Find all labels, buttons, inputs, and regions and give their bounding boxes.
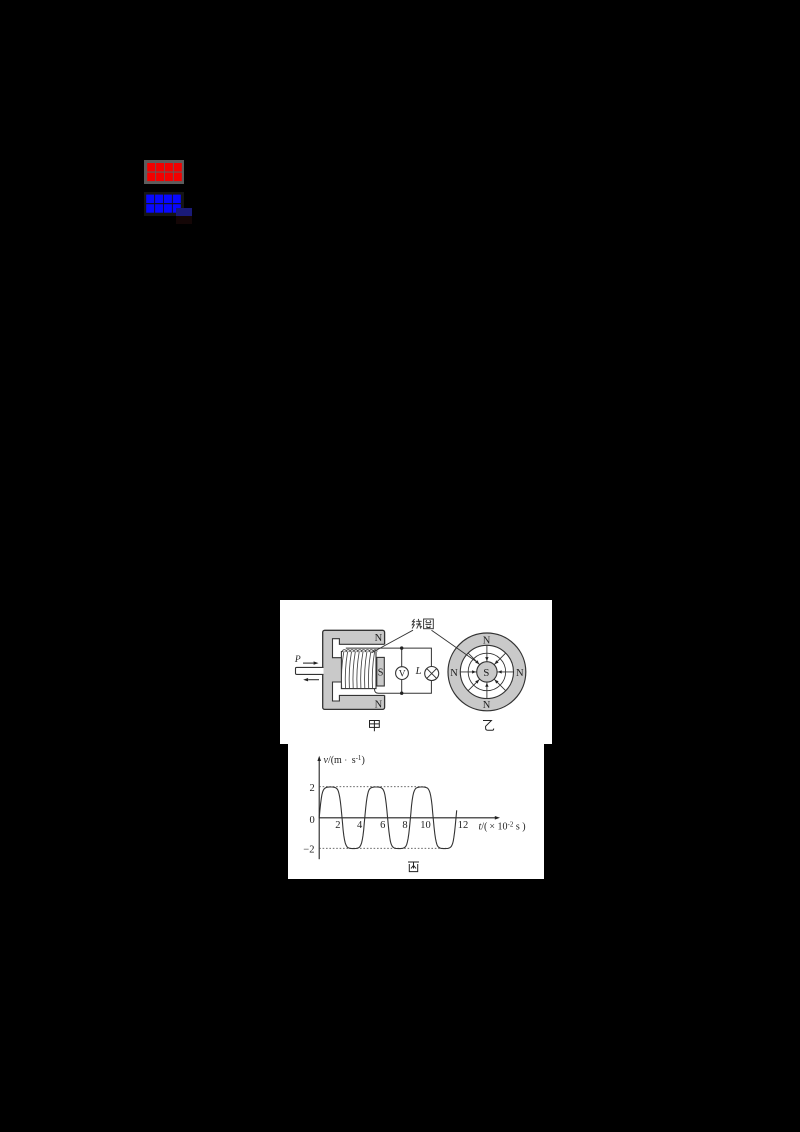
svg-text:N: N: [483, 636, 491, 647]
svg-text:0: 0: [310, 815, 315, 826]
junction dot top: [400, 646, 403, 649]
lamp L: [425, 667, 439, 681]
velocity curve: [319, 787, 457, 849]
rod P: [296, 667, 324, 674]
caption 乙: [483, 721, 494, 731]
svg-text:4: 4: [357, 820, 363, 831]
svg-text:N: N: [375, 633, 383, 644]
arrow right above rod: [303, 662, 314, 664]
svg-text:10: 10: [420, 820, 431, 831]
navy block: [176, 208, 192, 216]
white figure box 1: apparatus and ring magnet: [280, 600, 552, 744]
wire top: [346, 648, 432, 666]
svg-text:2: 2: [335, 820, 340, 831]
white figure box 2: v-t graph: [288, 744, 544, 879]
svg-text:v/(m · s-1): v/(m · s-1): [324, 754, 365, 766]
magnet yoke: [323, 630, 385, 709]
blue video-tag box: [144, 192, 184, 216]
svg-text:S: S: [378, 668, 384, 679]
voltmeter V: [396, 667, 409, 680]
coil body: [341, 652, 376, 689]
junction dot bottom: [400, 692, 403, 695]
pointer line to coil: [372, 630, 414, 653]
svg-text:−2: −2: [303, 845, 314, 856]
svg-text:V: V: [399, 670, 406, 680]
y axis: [318, 760, 320, 860]
svg-text:N: N: [450, 668, 458, 679]
ring inner white: [460, 645, 513, 698]
dotted -2 line: [319, 847, 446, 849]
caption 丙: [408, 862, 419, 872]
svg-text:6: 6: [380, 820, 385, 831]
svg-text:N: N: [516, 668, 524, 679]
voice coil circle: [468, 653, 506, 691]
S pole block: [377, 657, 385, 686]
center S pole: [477, 662, 497, 682]
caption 甲: [370, 721, 380, 732]
coil callout label 线圈: [412, 619, 414, 629]
svg-text:12: 12: [458, 820, 469, 831]
yoke slot bottom: [333, 670, 387, 701]
svg-text:S: S: [483, 667, 489, 679]
wire bottom: [375, 680, 432, 693]
yoke slot top: [333, 639, 387, 670]
field lines with inward arrows: [497, 671, 513, 673]
svg-text:t/( × 10-2 s ): t/( × 10-2 s ): [479, 821, 526, 833]
svg-text:2: 2: [310, 783, 315, 794]
voltmeter branch wires: [401, 648, 403, 693]
svg-text:L: L: [415, 666, 422, 677]
pointer line to ring: [432, 630, 478, 662]
ring magnet annulus: [448, 633, 526, 711]
dotted +2 line: [319, 786, 425, 788]
svg-text:P: P: [294, 655, 301, 665]
coil loop tops: [342, 650, 377, 652]
arrow left below rod: [308, 679, 319, 681]
svg-text:N: N: [483, 700, 491, 711]
red video-tag box: [144, 160, 184, 184]
faint dark block: [176, 216, 192, 224]
svg-text:N: N: [375, 700, 383, 711]
x axis: [319, 817, 496, 819]
coil turns: [341, 652, 343, 689]
svg-text:8: 8: [402, 820, 407, 831]
